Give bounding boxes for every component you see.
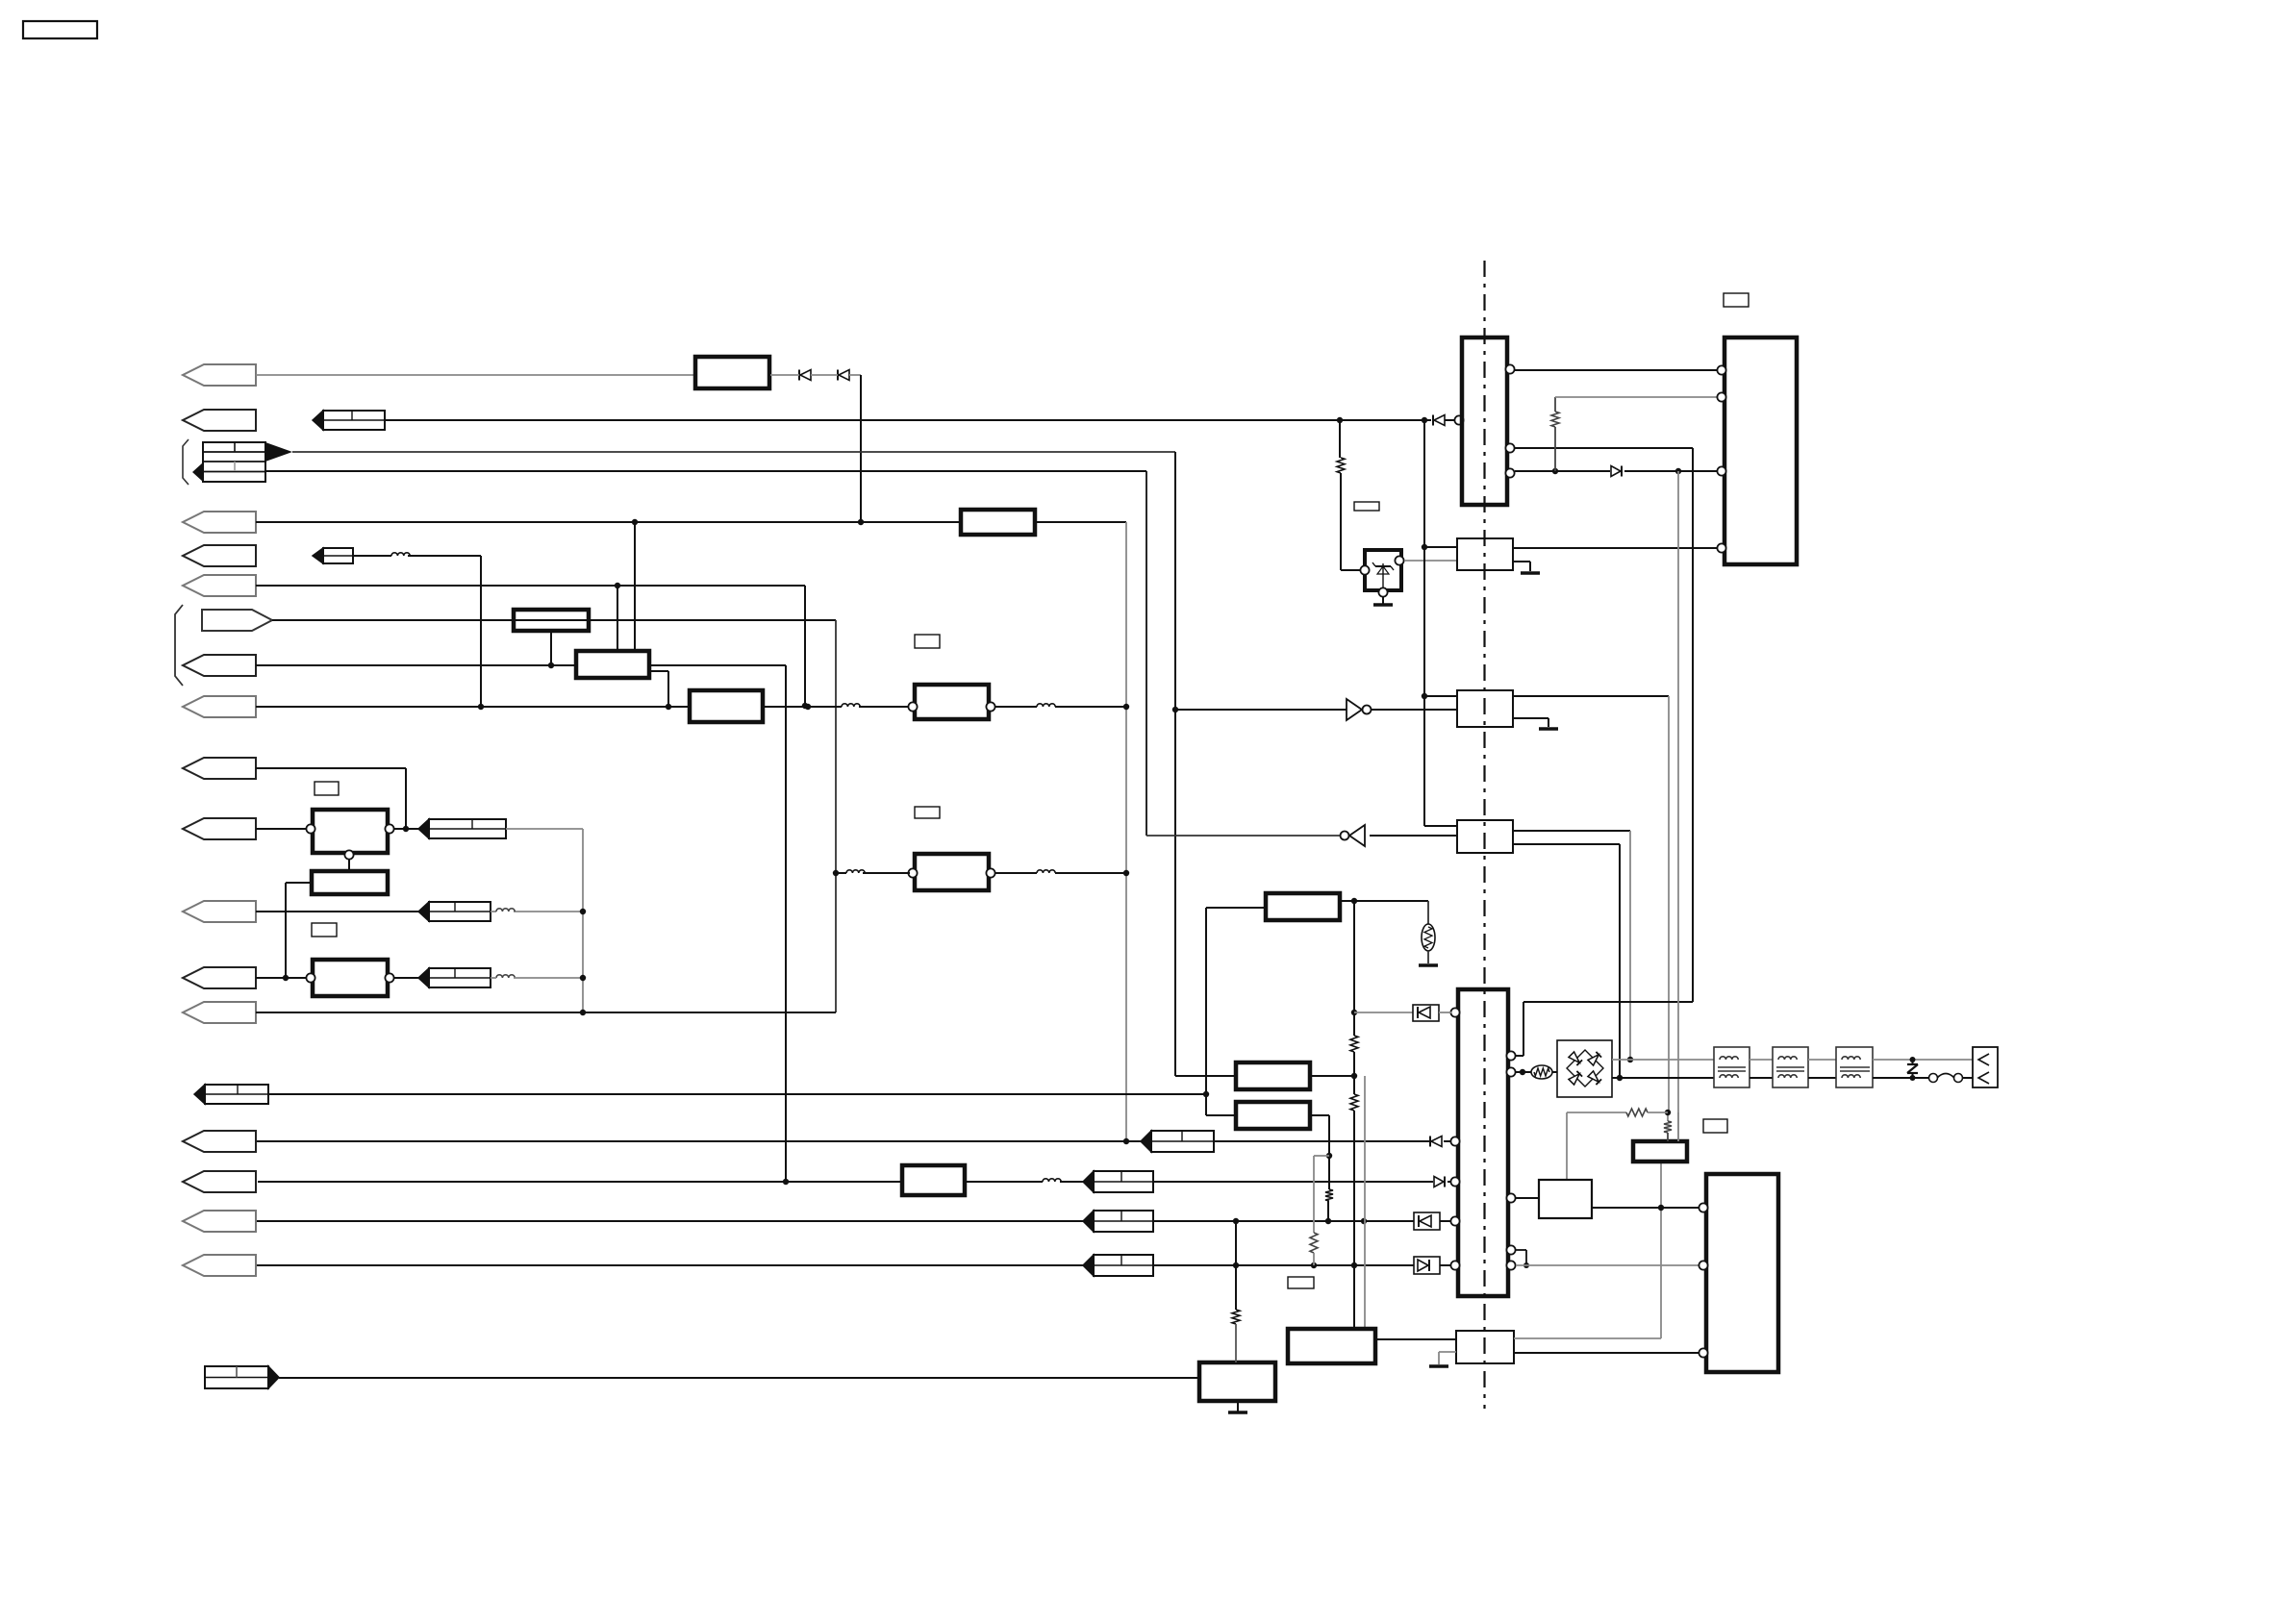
connector P9 (row 799) — [183, 758, 256, 779]
pin T1 right — [986, 702, 994, 711]
bridge diode c — [1569, 1071, 1582, 1085]
bridge diode a — [1569, 1052, 1582, 1065]
bus connector block — [192, 442, 292, 482]
inverter U4 — [1341, 825, 1366, 846]
wire net 692 — [256, 664, 576, 666]
value label box 8 — [1288, 1277, 1314, 1288]
fusible resistor FR1 — [1531, 1065, 1552, 1079]
junction dot 1171/908 — [1123, 870, 1129, 876]
ground G1 — [1228, 1411, 1247, 1414]
T5 coils — [1840, 1057, 1870, 1078]
ground G3 — [1521, 571, 1540, 575]
value label box 6 — [1354, 502, 1379, 511]
isolation barrier dash-dot line — [1483, 261, 1485, 1409]
junction dot 500/735 — [478, 704, 484, 710]
junction dot 1583/1115 — [1520, 1069, 1525, 1075]
pin CN1-1 — [1717, 365, 1725, 374]
wire IF1 out to CN pin — [1513, 547, 1718, 549]
junction dot 1745/492 — [1675, 468, 1681, 474]
junction dot 1481/437 — [1422, 417, 1427, 423]
reg box N8 — [1236, 1102, 1310, 1129]
resistor R1 vertical — [1337, 458, 1345, 473]
pin T2 left — [908, 868, 917, 877]
value label box 3 — [915, 635, 940, 648]
pin U2 right 1300 — [1506, 1245, 1515, 1254]
junction dot 1171/735 — [1123, 704, 1129, 710]
connector P17 (row 1316) — [183, 1255, 256, 1276]
bridge diode b — [1588, 1052, 1601, 1065]
wire vertical x895 — [860, 375, 862, 522]
off-page ref A11 — [418, 902, 491, 921]
connector P10 (row 862) — [183, 818, 256, 839]
inductor L7 — [1037, 870, 1055, 873]
wire to T1 pin — [859, 706, 910, 708]
junction dot 1481/724 — [1422, 693, 1427, 699]
wire N2 left — [286, 883, 312, 978]
transformer T5 box — [1836, 1047, 1873, 1087]
off-page ref A13 (row 1138) — [194, 1085, 268, 1104]
bridge rectifier DB1 box — [1557, 1040, 1612, 1097]
wire net 1270 — [257, 1220, 1414, 1222]
junction dot 606/1017 — [580, 975, 586, 981]
photocoupler PC1 box — [1365, 550, 1401, 590]
off-page ref A16 — [1083, 1211, 1153, 1232]
wire N4 out — [965, 1181, 1043, 1183]
wire IF4 lower out — [1514, 1352, 1699, 1354]
zener ZD1 inside PC1 — [1372, 562, 1394, 588]
wire net 390 — [256, 374, 695, 376]
wire A1 out upper — [649, 665, 786, 1182]
junction dot 606/1053 — [580, 1010, 586, 1015]
connector CN2 box — [1973, 1047, 1998, 1087]
wire R7 bottom — [1235, 1324, 1237, 1362]
junction dot 297/1017 — [283, 975, 289, 981]
wire R1 top — [1339, 420, 1341, 458]
pin T1 left — [908, 702, 917, 711]
ground G2 — [1373, 603, 1393, 607]
off-page ref A12 — [418, 968, 491, 987]
junction dot 1734/1157 — [1665, 1110, 1671, 1115]
pin PC1 top — [1395, 556, 1403, 564]
osc box N9 — [1288, 1329, 1375, 1363]
wire bridge out upper — [1612, 1059, 1714, 1061]
stub IF1 gnd — [1513, 562, 1530, 571]
value label box 1 — [315, 782, 339, 795]
dc box N4 — [902, 1165, 965, 1195]
wire D9 to U2 — [1439, 1012, 1451, 1013]
T4 coils — [1776, 1057, 1804, 1078]
wire U3 input — [1175, 709, 1347, 711]
wire net 1017 — [256, 977, 313, 979]
vertical net x1408 — [1353, 901, 1355, 1329]
junction dot 1393/437 — [1337, 417, 1343, 423]
pin U1 left — [1454, 415, 1463, 424]
resistor R6 — [1325, 1189, 1333, 1201]
stub HIC1 bottom — [550, 631, 552, 665]
wire U4 out left — [1146, 835, 1340, 837]
diode D8 — [1611, 466, 1622, 477]
resistor R3 — [1350, 1036, 1358, 1052]
interface relay IF4 box — [1456, 1331, 1514, 1363]
wire net 1157 — [1567, 1112, 1626, 1113]
pin CN3-3 — [1699, 1348, 1707, 1357]
wire D8 to CN1 — [1624, 470, 1718, 472]
wire net 645 — [272, 620, 836, 1012]
wire net 948 — [256, 911, 583, 912]
vertical x1285 — [1235, 1221, 1237, 1310]
wire U2-1115 to bridge — [1516, 1071, 1531, 1073]
transformer T1 box — [915, 685, 989, 719]
wire 862 to corner — [506, 829, 583, 1012]
junction dot 1382/1202 — [1326, 1153, 1332, 1159]
wire FL1 to corner — [1035, 522, 1126, 1141]
vertical net x1419 — [1364, 1076, 1366, 1329]
stub 1481-859 to IF3 — [1424, 825, 1457, 827]
amp box A1 — [576, 651, 649, 678]
junction dot 695/735 — [666, 704, 671, 710]
wire net 1138 — [268, 1093, 1206, 1095]
stub IF2 gnd — [1513, 718, 1548, 727]
bus wire bottom (row 490) — [265, 470, 1146, 472]
bracket rows 645-692 — [175, 605, 183, 686]
bridge diamond — [1567, 1050, 1603, 1087]
resistor R5 — [1310, 1233, 1318, 1253]
hybrid IC box HIC1 — [514, 610, 589, 631]
bracket bus block — [183, 439, 189, 485]
off-page ref A2 — [313, 411, 385, 430]
wire N11 out — [1592, 1207, 1699, 1209]
pin T2 right — [986, 868, 994, 877]
pin U2 left 1270 — [1450, 1216, 1459, 1225]
connector CN3 box — [1706, 1174, 1778, 1372]
connector P3 (row 543) — [183, 512, 256, 533]
junction dot 869/908 — [833, 870, 839, 876]
off-page ref A4 — [313, 548, 353, 563]
interface relay IF3 box — [1457, 820, 1513, 853]
junction dot 1381/1270 — [1325, 1218, 1331, 1224]
wire diode to U1 pin — [1445, 419, 1454, 421]
pin U2 left 1187 — [1450, 1137, 1459, 1145]
wire IF4 upper out — [1514, 1162, 1661, 1338]
junction dot 895/543 — [858, 519, 864, 525]
value label box 4 — [915, 807, 940, 818]
junction dot 1408/937 — [1351, 898, 1357, 904]
relay RLY1 box — [313, 810, 388, 853]
wire U2-1246 to N11 — [1516, 1197, 1539, 1199]
junction dot 606/948 — [580, 909, 586, 914]
boxed diode D9 — [1413, 1005, 1439, 1021]
wire D7 to U2 — [1440, 1264, 1451, 1266]
connector P2 (row 437) — [183, 410, 256, 431]
wire net 437 — [385, 419, 1431, 421]
diode D5 — [1434, 1177, 1445, 1187]
off-page ref A17 — [1083, 1255, 1153, 1276]
wire net 1053 — [256, 1012, 836, 1013]
value label box 7 — [1703, 1119, 1727, 1133]
resistor R4 — [1350, 1094, 1358, 1111]
connector P16 (row 1270) — [183, 1211, 256, 1232]
ground G4 — [1539, 727, 1558, 731]
vertical x642 into A1 — [617, 586, 618, 651]
wire net 1053 gray — [1354, 1012, 1413, 1013]
junction dot 1285/1316 — [1233, 1262, 1239, 1268]
pin CN3-1 — [1699, 1203, 1707, 1212]
wire 1229 seg2 — [1153, 1181, 1433, 1183]
CN2 pin glyph 1 — [1978, 1054, 1989, 1065]
wire U3 out — [1372, 709, 1457, 711]
pin U2 left 1316 — [1450, 1261, 1459, 1269]
wire R5 bottom — [1313, 1253, 1315, 1265]
junction dot 1366/1316 — [1311, 1262, 1317, 1268]
pin U2 right 1316 — [1506, 1261, 1515, 1269]
wire bridge out lower — [1612, 1077, 1714, 1079]
junction dot 642/609 — [615, 583, 620, 588]
junction dot 422/862 — [403, 826, 409, 832]
wire N8 right — [1310, 1115, 1329, 1189]
relay K1 box — [695, 357, 769, 388]
ground G1 stub — [1237, 1401, 1239, 1412]
boxed diode D6 — [1414, 1212, 1440, 1230]
ground G6 — [1429, 1364, 1448, 1368]
wire U2-1300 jog — [1516, 1250, 1529, 1268]
connector P8 (row 735) — [183, 696, 256, 717]
wire R8 to N10 — [1667, 1133, 1669, 1141]
junction dot 1222/738 — [1172, 707, 1178, 712]
junction dot 1684/1121 — [1617, 1075, 1623, 1081]
wire T2 right — [995, 872, 1126, 874]
wire PC1 top out — [1404, 560, 1457, 562]
wire R9 to dot — [1648, 1112, 1668, 1113]
wire net 735 left — [256, 706, 690, 708]
resistor R7 — [1232, 1310, 1240, 1324]
wire T2 left — [836, 872, 910, 874]
ctrl box N11 — [1539, 1180, 1592, 1218]
wire U1-384 to CN1 — [1515, 369, 1718, 371]
wire R2 bottom — [1554, 427, 1556, 471]
vertical net x1481 — [1423, 420, 1425, 826]
thermal fuse F1 — [1929, 1074, 1963, 1083]
wire 1187 seg2 — [1214, 1140, 1429, 1142]
inductor L4 — [496, 909, 515, 912]
dc-dc box N6 — [1266, 893, 1340, 920]
wire A1 out jog — [649, 671, 668, 707]
connector P5 (row 609) — [183, 575, 256, 596]
junction dot 1285/1270 — [1233, 1218, 1239, 1224]
junction dot 1171/1187 — [1123, 1138, 1129, 1144]
wire D1-D2 segs — [770, 374, 861, 376]
pin N3 right — [385, 973, 393, 982]
wire net 862 — [256, 828, 313, 830]
diode D2 — [838, 370, 849, 381]
junction dot 660/543 — [632, 519, 638, 525]
inductor L8 — [1043, 1179, 1061, 1182]
junction dot 817/1229 — [783, 1179, 789, 1185]
ground G2 stub — [1382, 597, 1384, 604]
stub 1481-724 to IF2 — [1424, 695, 1457, 697]
pin CN1-4 — [1717, 543, 1725, 552]
inductor L3 — [1037, 704, 1055, 707]
wire N10 top a — [1667, 1112, 1669, 1121]
wire net 1229 left — [258, 1181, 902, 1183]
wire D6 to U2 — [1440, 1220, 1451, 1222]
wire U4 input — [1370, 835, 1457, 837]
connector P14 (row 1187) — [183, 1131, 256, 1152]
pin N3 left — [306, 973, 315, 982]
modem IC U1 box — [1462, 337, 1507, 505]
inductor L6 — [846, 870, 865, 873]
off-page ref A14 — [1141, 1131, 1214, 1152]
wire net 578 — [353, 556, 481, 707]
wire to U2 pin — [1444, 1140, 1451, 1142]
mod box N2 — [312, 871, 388, 894]
junction dot 1727/1256 — [1658, 1205, 1664, 1211]
codec box N3 — [313, 960, 388, 996]
filter FL1 box — [961, 510, 1035, 535]
wire net 609 — [256, 586, 805, 706]
junction dot 837/734 — [802, 703, 808, 709]
wire IF3 upper out — [1513, 831, 1630, 1060]
wire R1 bottom to opto — [1341, 473, 1362, 570]
junction dot 1418/1270 — [1361, 1218, 1367, 1224]
pin U2 right 1115 — [1506, 1067, 1515, 1076]
branch 1202 — [1314, 1156, 1329, 1233]
pin U1 right 466 — [1505, 443, 1514, 452]
wire U1-492 — [1515, 470, 1610, 472]
vertical net x1222 — [1175, 452, 1236, 1076]
junction dot 1408/1316 — [1351, 1262, 1357, 1268]
wire T5 out lower — [1873, 1077, 1929, 1079]
wire N7 right — [1310, 1075, 1354, 1077]
wire U2-1316 to CN3 — [1516, 1264, 1699, 1266]
wire T3-T4 — [1750, 1060, 1773, 1078]
diode D1 — [799, 370, 811, 381]
resistor R2 — [1551, 412, 1559, 427]
CN2 pin glyph 2 — [1978, 1072, 1989, 1084]
value label box 5 — [1724, 293, 1749, 307]
transformer T2 box — [915, 854, 989, 890]
connector P1 (row 390) — [183, 364, 256, 386]
wire N9 out — [1375, 1338, 1456, 1340]
transformer T3 box — [1714, 1047, 1750, 1087]
pin U2 left 1053 — [1450, 1008, 1459, 1016]
wire IF3 lower out — [1513, 844, 1620, 1078]
inductor L5 — [496, 975, 515, 978]
connector P13 (row 1053) — [183, 1002, 256, 1023]
value label box 2 — [312, 923, 337, 937]
junction dot 1254/1138 — [1203, 1091, 1209, 1097]
wire R6 bottom — [1327, 1201, 1329, 1221]
wire N6 right — [1340, 900, 1428, 902]
pin RLY1 left — [306, 824, 315, 833]
wire net 799 — [256, 768, 406, 829]
pin RLY1 bottom — [344, 850, 353, 859]
junction dot 1695/1102 — [1627, 1057, 1633, 1062]
wire IF2 out — [1513, 696, 1669, 1112]
wire R2 top — [1555, 397, 1718, 412]
reg box N10 — [1633, 1141, 1687, 1162]
pin RLY1 right — [385, 824, 393, 833]
stub 1481-569 to IF1 — [1424, 546, 1457, 548]
junction dot 1408/1119 — [1351, 1073, 1357, 1079]
wire T5 out upper — [1873, 1059, 1973, 1061]
T3 coils — [1718, 1057, 1746, 1078]
inverter U3 — [1347, 699, 1372, 720]
surge arrester SA2 — [1422, 901, 1435, 963]
vertical net x1192 — [1145, 471, 1147, 836]
wire FR1 to bridge — [1552, 1071, 1557, 1073]
speech IC box N1 — [690, 690, 763, 722]
inductor L1 — [391, 553, 410, 556]
vertical x660 into A1 — [634, 522, 636, 651]
wire net 1316 — [257, 1264, 1414, 1266]
resistor R9 — [1626, 1109, 1648, 1116]
off-page ref A18 (row 1436 out) — [205, 1366, 279, 1388]
connector P15 (row 1229) — [183, 1171, 256, 1192]
wire T1 right — [995, 706, 1126, 708]
connector P11 (row 948) — [183, 901, 256, 922]
connector P7 (row 692) — [183, 655, 256, 676]
inductor L2 — [842, 704, 860, 707]
junction dot 840/735 — [805, 704, 811, 710]
transformer T4 box — [1773, 1047, 1808, 1087]
pin PC1 left — [1360, 565, 1369, 574]
line IC U2 box — [1458, 989, 1508, 1296]
interface relay IF1 box — [1457, 538, 1513, 570]
wire U1-466 path — [1515, 448, 1693, 1056]
reg box N7 — [1236, 1062, 1310, 1089]
pin U2 left 1229 — [1450, 1177, 1459, 1186]
connector CN1 box — [1725, 337, 1797, 564]
wire net 1187 — [257, 1140, 1141, 1142]
wire N6 left — [1206, 908, 1266, 1115]
junction dot 1481/569 — [1422, 544, 1427, 550]
ground G5 — [1419, 963, 1438, 967]
pin U2 right 1098 — [1506, 1051, 1515, 1060]
connector P4 (row 578) — [183, 545, 256, 566]
junction dot 573/692 — [548, 662, 554, 668]
pin U1 right 384 — [1505, 364, 1514, 373]
off-page ref A15 — [1083, 1171, 1153, 1192]
wire net 543 — [256, 521, 961, 523]
connector P6 (row 645 out) — [202, 610, 272, 631]
vertical net x1745 — [1677, 471, 1679, 1141]
resistor R8 — [1664, 1121, 1672, 1133]
surge arrester SA1 — [1907, 1057, 1918, 1081]
wire L8 to ref — [1060, 1181, 1083, 1183]
junction dot 1408/1053 — [1351, 1010, 1357, 1015]
wire 735 seg2 — [763, 706, 842, 708]
pin U1 right 492 — [1505, 468, 1514, 477]
pin CN1-2 — [1717, 392, 1725, 401]
off-page ref A10 — [418, 819, 506, 838]
vertical x1629 — [1566, 1112, 1568, 1180]
bus wire top (row 469) — [292, 451, 1175, 453]
pin U2 right 1246 — [1506, 1193, 1515, 1202]
interface relay IF2 box — [1457, 690, 1513, 727]
wire net 1436 — [279, 1377, 1199, 1379]
wire RLY1 out — [393, 828, 418, 830]
boxed diode D7 — [1414, 1257, 1440, 1274]
wire T4-T5 — [1808, 1060, 1836, 1078]
title block frame — [23, 21, 97, 38]
wire F1 to CN2 — [1962, 1077, 1973, 1079]
ring box N5 — [1199, 1362, 1275, 1401]
wire N3 out — [393, 977, 418, 979]
wire N10 top b — [1677, 1112, 1679, 1141]
junction dot 1617/492 — [1552, 468, 1558, 474]
connector P12 (row 1017) — [183, 967, 256, 988]
diode D4 — [1430, 1137, 1442, 1147]
